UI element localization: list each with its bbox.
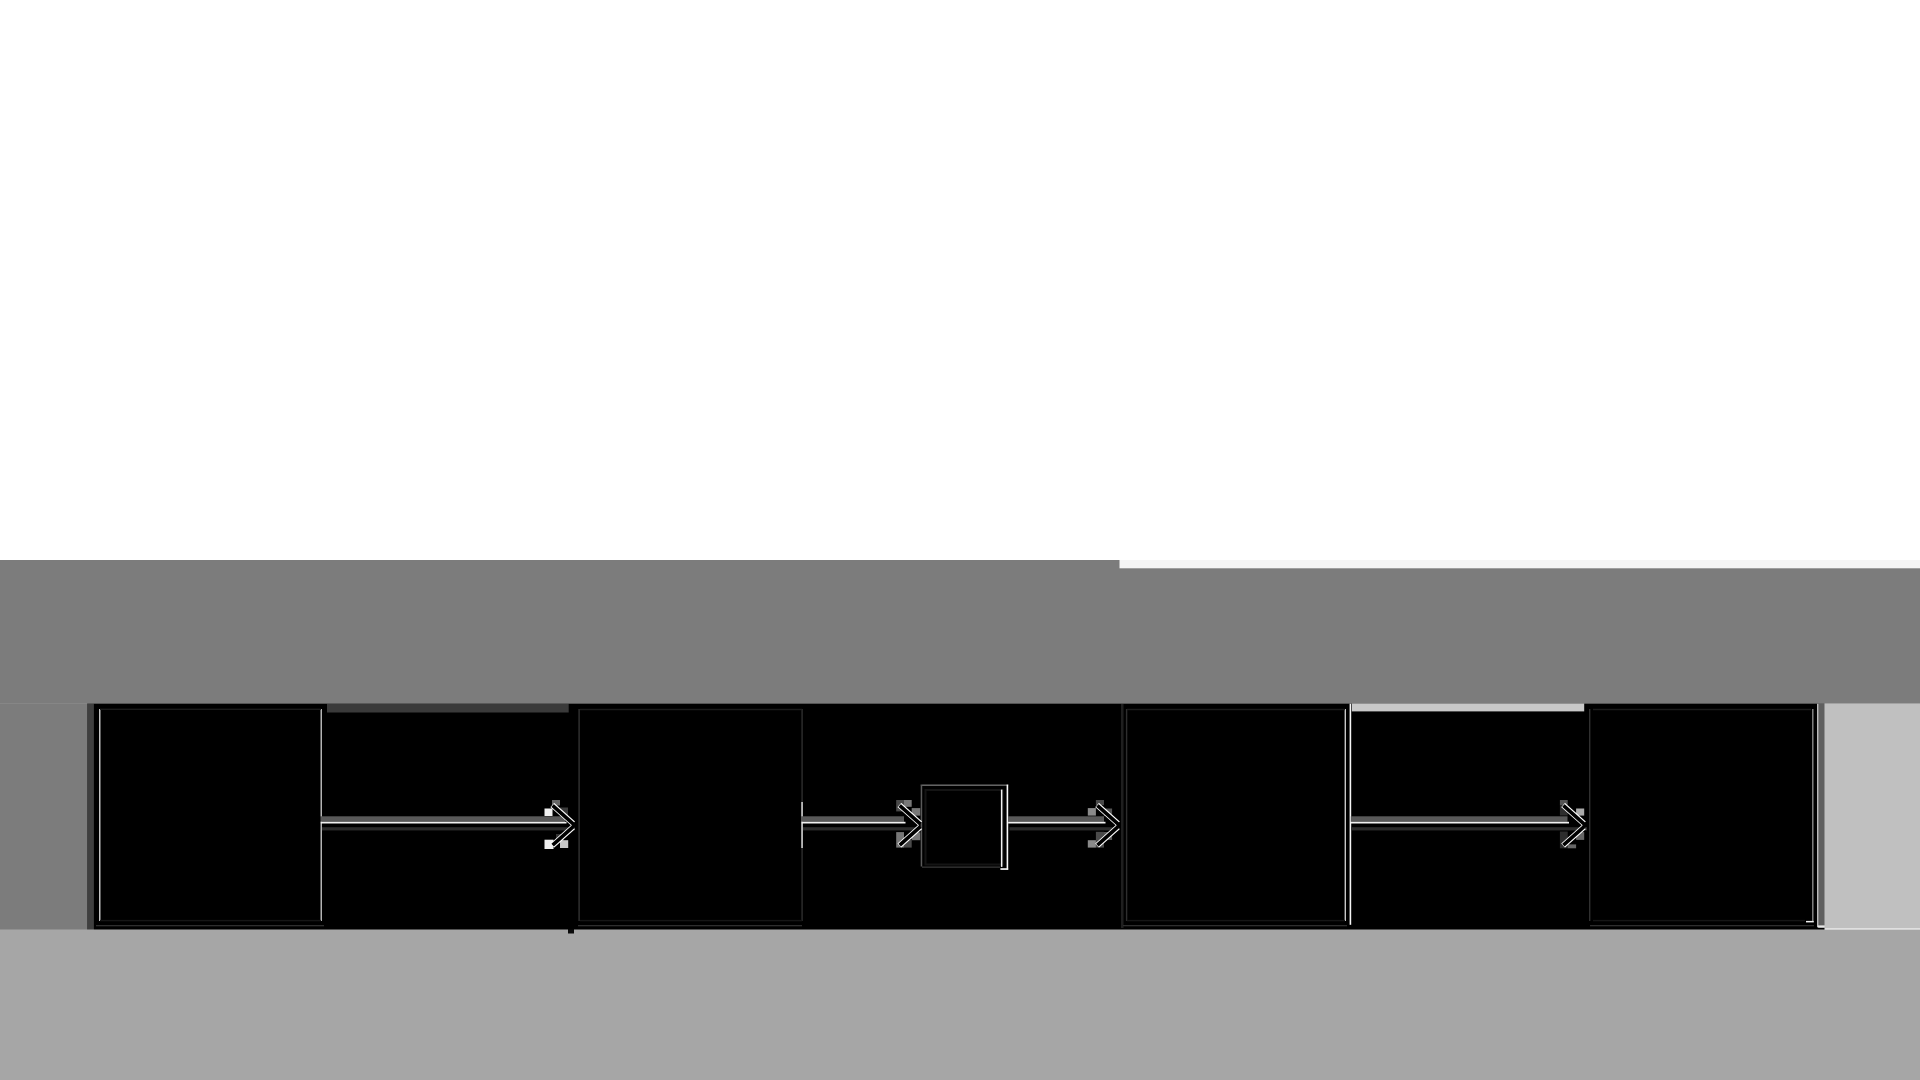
arrowhead W1	[552, 805, 573, 846]
bottom tab below strip	[568, 930, 574, 934]
strip right edge column	[1818, 704, 1824, 928]
strip left edge column	[87, 704, 94, 930]
left gray column	[0, 704, 87, 930]
process box B4	[1588, 704, 1817, 928]
arrowhead W2	[899, 805, 920, 846]
connector arrow W2 (B2 to SB)	[801, 800, 920, 848]
process box B1	[94, 704, 327, 928]
process box B2	[577, 704, 805, 928]
strip right edge white line	[1817, 704, 1818, 927]
connector arrow W1 (B1 to B2)	[321, 800, 575, 849]
small node SB	[921, 785, 1009, 870]
handles W1	[552, 800, 560, 806]
black canvas strip	[87, 704, 1824, 930]
off-white step strip top right	[1120, 560, 1920, 568]
gap1 top band	[327, 704, 569, 713]
connector arrow W3 (SB to B3)	[1008, 800, 1119, 848]
right light gray block	[1825, 704, 1920, 929]
strip bottom right white corner	[1818, 925, 1825, 927]
connector arrow W4 (B3 to B4)	[1351, 800, 1587, 848]
top gray band	[0, 560, 1920, 704]
handles W2	[896, 800, 904, 811]
handles W3	[1096, 800, 1104, 805]
gap4 top band	[1352, 704, 1584, 712]
arrowhead W3	[1097, 805, 1118, 846]
arrowhead W4	[1563, 805, 1584, 846]
bottom gray area	[0, 930, 1920, 1080]
process box B3	[1121, 704, 1351, 928]
handles W4	[1560, 800, 1568, 805]
